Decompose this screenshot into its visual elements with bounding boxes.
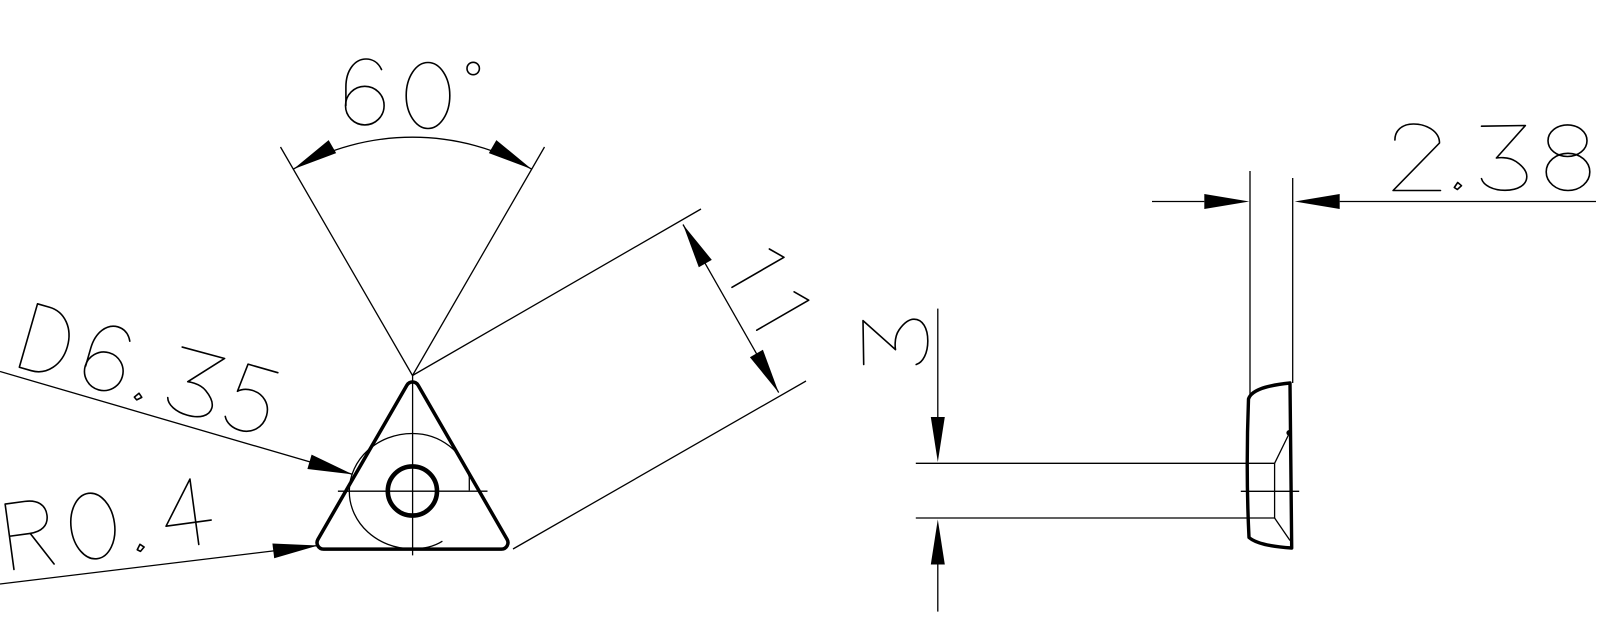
angle extension line left (281, 147, 413, 376)
arrowhead 3 up (931, 520, 945, 565)
dimension line 11 (683, 225, 779, 393)
dim 3 vertical line lower (937, 565, 939, 612)
ext line for 11 upper (413, 209, 702, 376)
arc arrowhead left (293, 140, 336, 169)
hole vertical connector (1274, 463, 1276, 518)
hidden hole line top (916, 462, 1275, 464)
arrowhead 11 upper (683, 225, 712, 268)
vertical centerline (412, 376, 414, 556)
dim 3 vertical line upper (937, 309, 939, 417)
countersink diagonal lower (1275, 518, 1290, 541)
text 3 rotated (863, 319, 928, 364)
side view: extension line right (1292, 178, 1294, 383)
text 2.38 (1393, 124, 1590, 191)
front view: triangle insert outline (317, 382, 508, 549)
leader arrowhead R0.4 (272, 544, 318, 559)
text 11 rotated (725, 245, 809, 330)
horizontal centerline (338, 490, 488, 492)
thin inner contour arc (chip breaker circle) (349, 434, 469, 549)
arrowhead 11 lower (750, 350, 779, 393)
leader line R0.4 (0, 546, 318, 585)
arc arrowhead right (489, 140, 532, 169)
side view insert profile outline (1247, 383, 1291, 548)
side view: extension line left (1249, 171, 1251, 396)
text D6.35 rotated (19, 304, 278, 437)
text 60deg (346, 59, 480, 129)
countersink diagonal upper (1275, 434, 1290, 464)
hole circle D6.35 (388, 466, 437, 515)
angle extension line right (413, 147, 545, 376)
60 degree dimension arc (293, 137, 531, 169)
leader arrowhead D6.35 (307, 455, 352, 475)
small dot on right edge (1286, 430, 1292, 436)
leader line D6.35 (0, 372, 353, 475)
ext line for 11 lower (513, 381, 806, 549)
dim line 2.38 left segment (1152, 201, 1204, 203)
hidden hole line bottom (916, 517, 1275, 519)
dim line 2.38 right segment (1340, 201, 1596, 203)
arrowhead 2.38 right (1295, 194, 1340, 209)
tick from arc end to centerline (468, 477, 470, 490)
arrowhead 3 down (931, 417, 945, 462)
arrowhead 2.38 left (1204, 194, 1249, 209)
text R0.4 rotated (5, 477, 214, 570)
side view horizontal centerline (1241, 490, 1299, 492)
